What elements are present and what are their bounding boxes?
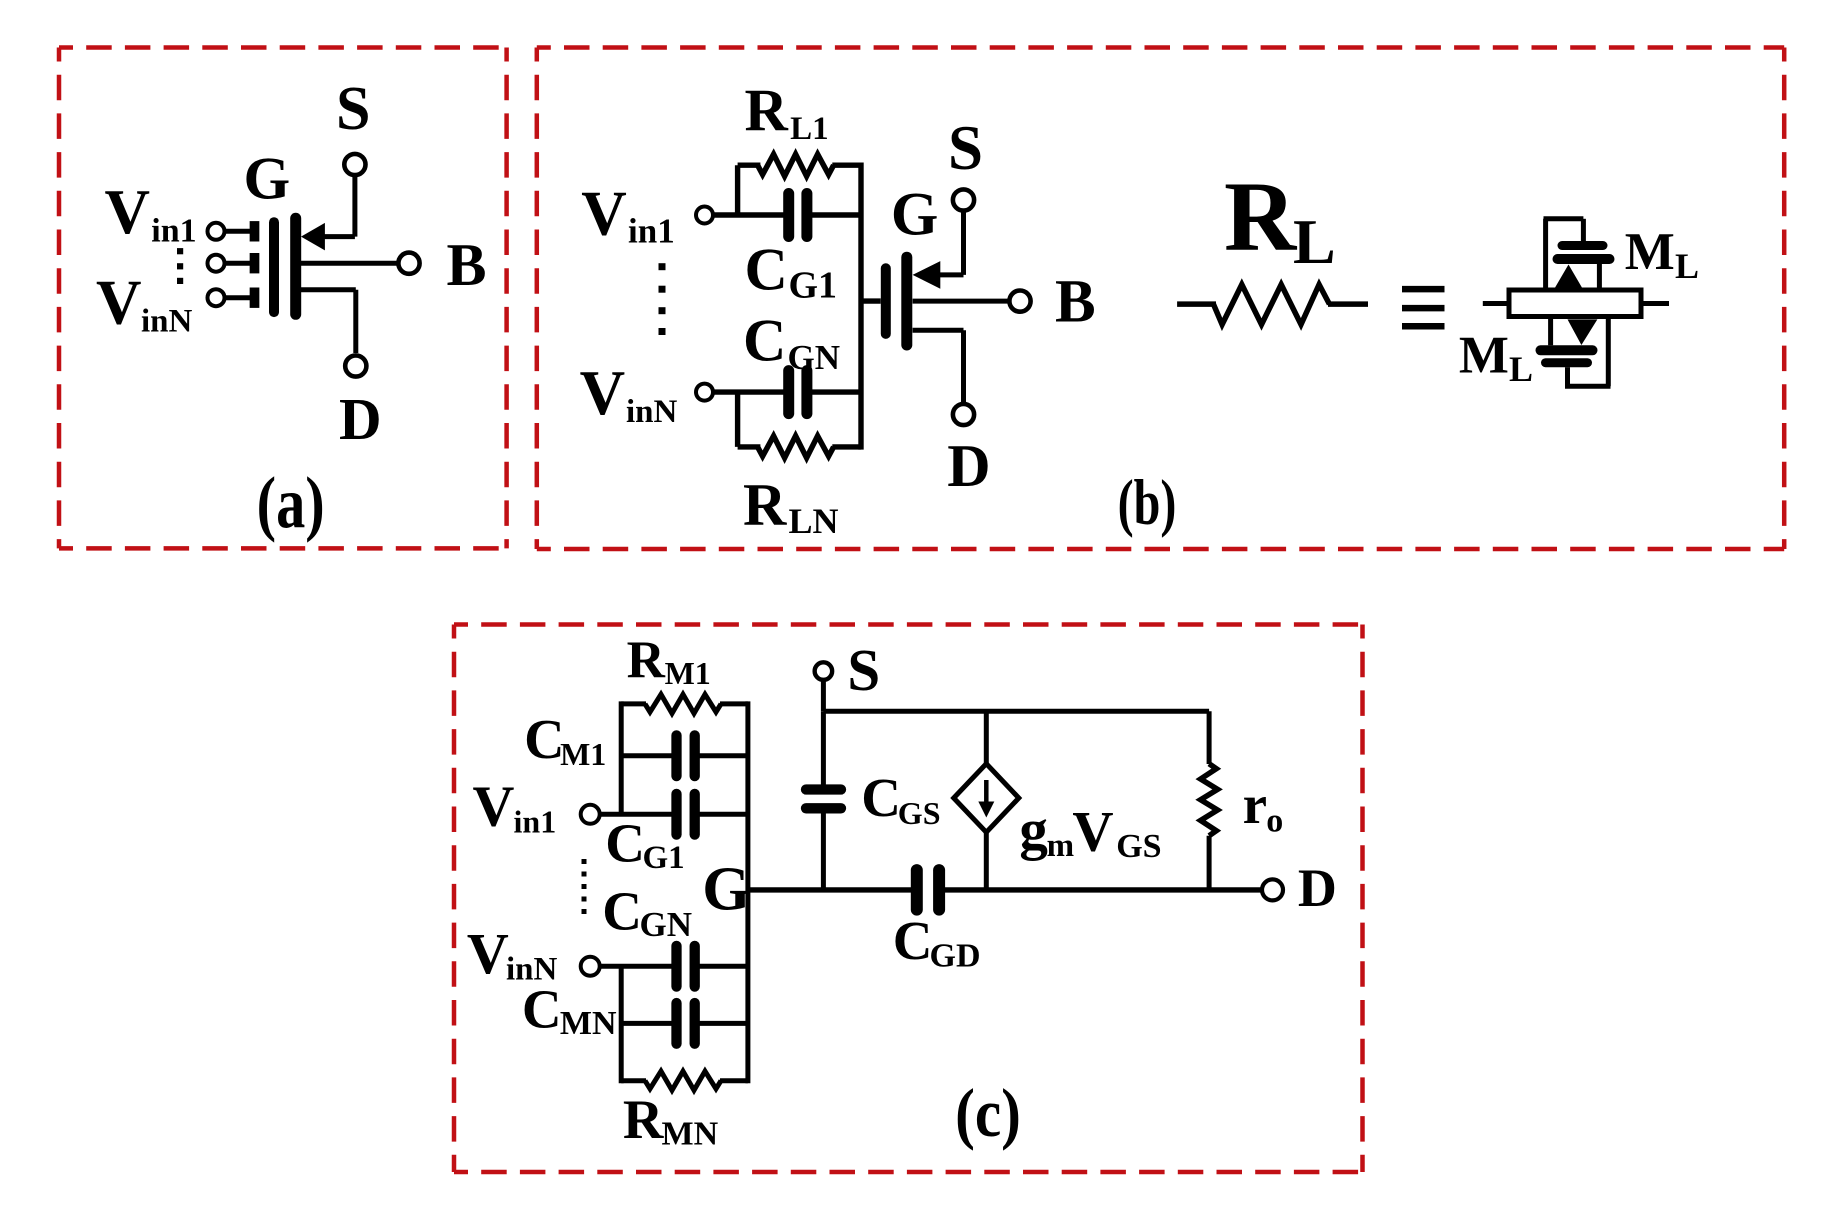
svg-text:D: D (339, 386, 382, 452)
svg-text:B: B (447, 232, 487, 298)
svg-text:C: C (743, 308, 786, 374)
svg-text:R: R (1224, 161, 1298, 272)
svg-text:M1: M1 (665, 655, 711, 691)
svg-text:V: V (580, 358, 626, 428)
svg-text:V: V (105, 177, 151, 247)
svg-text:GS: GS (898, 795, 941, 831)
svg-text:MN: MN (662, 1115, 719, 1152)
svg-text:LN: LN (789, 501, 839, 541)
svg-text:in1: in1 (514, 804, 557, 840)
svg-text:R: R (623, 1089, 664, 1151)
svg-text:C: C (861, 767, 901, 828)
svg-text:C: C (893, 910, 933, 971)
svg-text:M1: M1 (560, 736, 606, 772)
svg-text:in1: in1 (151, 212, 196, 249)
svg-text:R: R (743, 472, 787, 538)
svg-text:GS: GS (1116, 828, 1161, 865)
svg-text:L: L (1675, 246, 1699, 286)
svg-text:G: G (891, 181, 938, 248)
svg-text:G: G (702, 856, 750, 924)
svg-text:S: S (336, 75, 370, 143)
svg-text:V: V (473, 774, 515, 839)
svg-text:V: V (1072, 801, 1113, 864)
svg-text:V: V (467, 921, 509, 986)
svg-text:M: M (1625, 223, 1675, 281)
svg-text:o: o (1266, 803, 1283, 840)
svg-text:C: C (522, 979, 562, 1040)
svg-text:C: C (524, 709, 564, 771)
svg-text:R: R (745, 78, 789, 144)
svg-text:L: L (1509, 349, 1533, 389)
svg-text:(a): (a) (257, 463, 325, 544)
svg-text:m: m (1047, 828, 1075, 864)
svg-text:(c): (c) (955, 1075, 1021, 1151)
svg-text:L1: L1 (790, 111, 829, 147)
svg-text:inN: inN (141, 304, 193, 340)
svg-text:R: R (627, 631, 666, 689)
svg-text:G1: G1 (643, 840, 685, 876)
svg-text:M: M (1459, 327, 1509, 385)
svg-text:S: S (847, 637, 880, 703)
svg-text:L: L (1293, 206, 1336, 277)
svg-text:V: V (96, 268, 142, 338)
svg-text:GN: GN (788, 338, 841, 377)
svg-text:MN: MN (560, 1005, 617, 1042)
svg-text:C: C (605, 812, 645, 873)
svg-text:(b): (b) (1118, 467, 1177, 539)
svg-text:GD: GD (930, 938, 981, 975)
svg-text:V: V (581, 179, 627, 249)
svg-text:D: D (1298, 858, 1337, 918)
svg-text:C: C (602, 880, 642, 941)
svg-text:D: D (947, 433, 990, 499)
svg-text:G: G (244, 146, 291, 212)
svg-text:C: C (745, 237, 788, 303)
svg-text:r: r (1243, 774, 1267, 835)
svg-text:inN: inN (626, 394, 678, 430)
svg-text:G1: G1 (789, 265, 838, 307)
svg-text:g: g (1019, 799, 1048, 862)
svg-text:S: S (948, 113, 983, 183)
svg-text:in1: in1 (628, 212, 675, 251)
svg-text:GN: GN (640, 905, 693, 944)
svg-text:B: B (1055, 269, 1096, 336)
